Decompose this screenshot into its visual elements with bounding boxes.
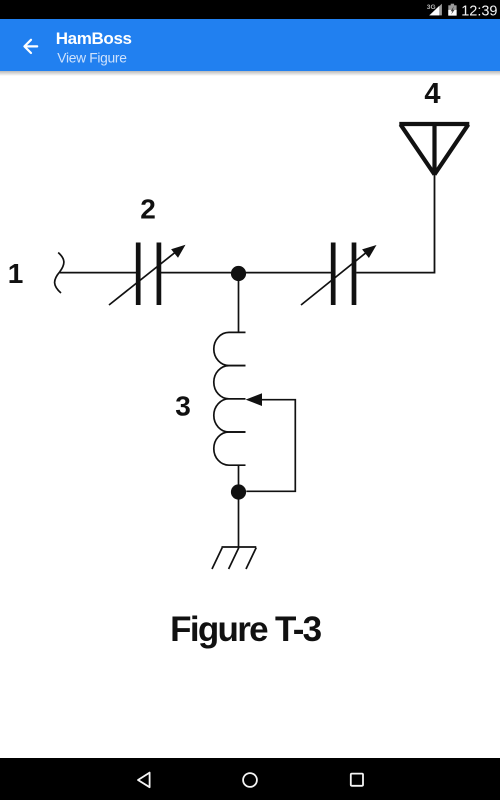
tap wire: arrow to right then down to node B — [246, 400, 295, 492]
input wire break squiggle — [55, 253, 64, 294]
nav bar recents button (square) — [351, 774, 363, 786]
wire: C1 to junction node A — [161, 272, 234, 274]
status bar — [0, 0, 500, 19]
variable capacitor C1 plates — [138, 243, 159, 306]
svg-text:View Figure: View Figure — [57, 51, 127, 66]
wire: node A down to inductor L1 — [238, 278, 240, 332]
svg-text:3G: 3G — [427, 4, 436, 11]
wire: input to capacitor C1 — [60, 272, 136, 274]
variable capacitor C1 adjustment arrow — [109, 245, 186, 305]
antenna symbol (item 4) — [399, 124, 469, 175]
variable capacitor C2 plates — [333, 243, 354, 306]
junction node B (dot) — [231, 484, 246, 499]
svg-text:4: 4 — [424, 78, 440, 110]
wire: node B to ground — [238, 497, 240, 547]
svg-text:3: 3 — [175, 391, 191, 422]
junction node A (dot) — [231, 266, 246, 281]
wire: inductor bottom to node B — [238, 465, 240, 487]
app bar back arrow — [24, 40, 37, 53]
wire: C2 to antenna stem — [356, 174, 434, 273]
svg-text:Figure T-3: Figure T-3 — [170, 610, 321, 649]
status bar battery icon — [448, 4, 456, 16]
status bar signal triangle — [429, 4, 442, 16]
inductor L1 (item 3) four turns — [214, 332, 246, 465]
navigation bar — [0, 758, 500, 800]
wire: node A to capacitor C2 — [243, 272, 331, 274]
nav bar back button (triangle) — [138, 773, 150, 788]
inductor tap arrow (points at third turn) — [246, 393, 262, 406]
ground symbol — [212, 547, 256, 569]
svg-text:HamBoss: HamBoss — [56, 29, 132, 48]
svg-text:1: 1 — [8, 258, 24, 289]
svg-text:12:39: 12:39 — [461, 4, 497, 20]
svg-text:2: 2 — [140, 194, 156, 225]
app bar — [0, 19, 500, 71]
variable capacitor C2 adjustment arrow — [301, 245, 377, 305]
nav bar home button (circle) — [243, 773, 257, 787]
